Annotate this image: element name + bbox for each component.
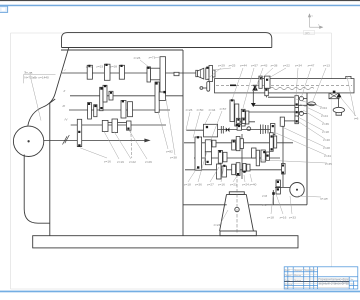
svg-text:Иванов: Иванов: [294, 275, 302, 277]
gear shaft III right a: [121, 101, 126, 119]
svg-text:z=44: z=44: [240, 64, 247, 68]
svg-text:Н.контр: Н.контр: [285, 284, 293, 286]
feed center cluster upper: [232, 140, 236, 150]
motor label leader: [23, 74, 55, 76]
gearbox top labels leaders: [140, 57, 160, 66]
svg-text:z=38: z=38: [170, 156, 177, 160]
svg-text:z=82: z=82: [166, 150, 173, 154]
wall side leaders: [158, 99, 175, 155]
svg-text:Лист: Лист: [350, 284, 355, 286]
svg-text:z=25: z=25: [229, 64, 236, 68]
svg-text:эл.дв: эл.дв: [320, 197, 328, 201]
big gear z71: [160, 57, 166, 94]
gear z33 shaft I: [104, 64, 110, 80]
dashed vertical from gear to below: [131, 130, 132, 159]
svg-text:z=57: z=57: [220, 107, 227, 111]
svg-text:z=24: z=24: [214, 223, 221, 227]
long right fan leaders: [262, 99, 327, 163]
svg-text:Петров: Петров: [294, 280, 302, 282]
sliding block gear b shaft IV: [112, 119, 118, 133]
gear shaft III left a: [88, 103, 92, 120]
inner column edge: [49, 103, 51, 236]
machine outline group: [13, 33, 307, 248]
gear shaft III left b: [94, 105, 97, 117]
svg-text:z=24: z=24: [321, 114, 328, 118]
svg-text:z=22: z=22: [129, 160, 136, 164]
svg-text:z=16: z=16: [104, 160, 111, 164]
svg-text:z=36: z=36: [195, 183, 202, 187]
bottom blue line: [0, 291, 360, 293]
coordinate axes symbol top right: [308, 14, 322, 28]
title block (blue): [284, 267, 358, 289]
svg-text:№докум: №докум: [294, 269, 303, 272]
svg-text:z=40: z=40: [323, 138, 330, 142]
svg-text:N=7,5кВт n=1440: N=7,5кВт n=1440: [24, 75, 49, 79]
svg-text:z=27: z=27: [207, 183, 214, 187]
shaft I: [62, 72, 197, 74]
svg-text:z=50: z=50: [197, 108, 204, 112]
lead screw wavy symbol inside bar: [270, 87, 314, 90]
wall between gearbox and feed box: [182, 50, 184, 236]
svg-text:z=28: z=28: [323, 146, 330, 150]
sliding block connector bars: [108, 122, 112, 124]
arbor support bracket: [329, 93, 344, 115]
shaft III: [69, 109, 170, 111]
box area leaders: [186, 111, 222, 142]
cone dashed centerline: [236, 164, 238, 233]
shaft II: [70, 95, 183, 97]
overarm bar: [215, 79, 355, 93]
cone label leader: [221, 210, 228, 223]
bowtie clutch: [226, 127, 230, 132]
svg-text:z=38: z=38: [110, 65, 117, 69]
gear shaft II small: [109, 91, 113, 100]
feed bottom row leaders: [188, 151, 252, 182]
feed gear pair above shaft: [237, 118, 241, 123]
svg-text:z=44: z=44: [209, 108, 216, 112]
svg-text:z=34: z=34: [324, 154, 331, 158]
small gear left feed: [212, 140, 216, 147]
gear z26 shaft I: [147, 67, 151, 82]
svg-text:z=26: z=26: [186, 108, 193, 112]
feed compartment bottom: [183, 204, 227, 206]
svg-text:z=16: z=16: [218, 183, 225, 187]
sliding block gear a shaft IV: [102, 120, 108, 131]
gear B shaft II: [155, 82, 159, 112]
svg-text:z=13: z=13: [323, 64, 330, 68]
double gear left feed: [205, 140, 211, 152]
black clutch dots gearbox: [78, 64, 166, 147]
top cap: [62, 33, 272, 48]
svg-text:z=18: z=18: [267, 216, 274, 220]
svg-text:t=6: t=6: [354, 117, 359, 121]
blue tab box top-left: [0, 6, 8, 12]
svg-text:z=71: z=71: [149, 56, 156, 60]
svg-text:z=26: z=26: [134, 56, 141, 60]
knee labels leaders: [271, 194, 292, 214]
tall sliding gear left feed: [195, 137, 202, 170]
svg-text:z=34: z=34: [295, 64, 302, 68]
svg-text:z=36: z=36: [322, 122, 329, 126]
feed motor circle: [290, 183, 304, 197]
svg-text:z=64: z=64: [320, 106, 327, 110]
svg-text:z=33: z=33: [289, 216, 296, 220]
motor bracket: [24, 155, 50, 224]
motor circle: [13, 126, 43, 156]
svg-text:z=16: z=16: [280, 216, 287, 220]
svg-text:z=35: z=35: [325, 162, 332, 166]
under gearbox leaders: [80, 130, 147, 159]
feed gear stack right column: [295, 96, 299, 108]
feed gear right of clutch: [270, 124, 275, 135]
svg-text:II: II: [64, 89, 66, 93]
svg-text:z=40: z=40: [250, 183, 257, 187]
left slant edge: [28, 48, 69, 126]
svg-text:Подп: Подп: [304, 270, 309, 272]
gear shaft III right b: [128, 102, 133, 117]
feed gear cluster mid-right: [252, 148, 256, 158]
bar right leader: [341, 98, 356, 116]
clutch tick pairs: [221, 126, 223, 134]
feed bottom shaft gears center: [232, 164, 236, 175]
svg-text:z=38: z=38: [271, 64, 278, 68]
svg-text:Лит: Лит: [350, 279, 354, 281]
svg-text:z=19: z=19: [117, 160, 124, 164]
gear C shaft II: [159, 92, 165, 100]
feed top leaders: [206, 68, 326, 108]
svg-text:z=57: z=57: [251, 64, 258, 68]
svg-text:z=27: z=27: [86, 65, 93, 69]
tall pulley gear motor shaft: [77, 119, 81, 146]
svg-text:z=18: z=18: [322, 130, 329, 134]
feed bottom shaft gears left: [217, 164, 222, 179]
top window edge line: [0, 0, 360, 1]
svg-text:z=21: z=21: [230, 183, 237, 187]
svg-text:(W): (W): [305, 31, 310, 35]
motor shaft: [44, 139, 147, 141]
svg-text:I: I: [65, 68, 66, 72]
base: [33, 236, 298, 248]
feed gear pair tall a: [230, 100, 234, 122]
svg-text:z=24: z=24: [242, 183, 249, 187]
shaft IV: [71, 124, 166, 126]
feed motor leader: [298, 196, 321, 197]
gear above vertical shaft: [280, 117, 284, 126]
hub on shaft I: [151, 68, 161, 80]
sliding block gear c shaft IV: [127, 121, 132, 130]
svg-text:III: III: [63, 104, 66, 108]
sheet faint border: [11, 33, 332, 289]
svg-text:t=6: t=6: [262, 203, 267, 207]
gear on vertical shaft: [282, 164, 286, 175]
gear z27 shaft I: [87, 65, 92, 79]
gear cluster on overarm bar: [259, 76, 270, 96]
svg-text:Разраб: Разраб: [285, 275, 293, 277]
svg-text:Эл.дв.: Эл.дв.: [24, 70, 33, 74]
feed motor gears: [276, 180, 280, 187]
svg-text:z=29: z=29: [218, 64, 225, 68]
svg-text:z=22: z=22: [283, 64, 290, 68]
sliding gear tall shaft II: [100, 87, 103, 110]
svg-text:z=33: z=33: [96, 65, 103, 69]
feed gear pair right mid: [270, 133, 274, 152]
blue toolbar line: [0, 5, 360, 7]
gear shaft II mid: [103, 85, 107, 102]
svg-text:z=26: z=26: [145, 160, 152, 164]
cone support: [229, 192, 244, 195]
svg-text:z=8: z=8: [262, 194, 267, 198]
svg-text:z=43: z=43: [261, 64, 268, 68]
feed gear pair mid-left: [218, 150, 222, 163]
svg-text:z=47: z=47: [308, 64, 315, 68]
right edge: [306, 93, 308, 205]
gear z38 shaft I: [119, 65, 124, 79]
feed gear small on shaft: [237, 125, 242, 131]
feed gear pair b: [241, 109, 245, 126]
svg-text:зерный станок 6Р82: зерный станок 6Р82: [319, 282, 350, 286]
svg-text:z=18: z=18: [184, 183, 191, 187]
